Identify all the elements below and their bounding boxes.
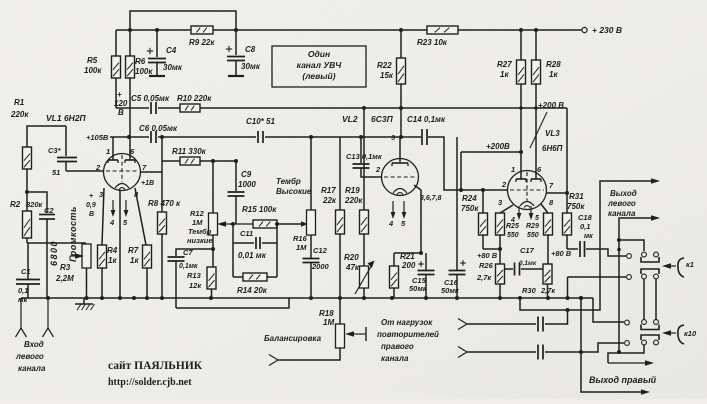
- node C7 tap: [211, 247, 215, 251]
- node V2 branch: [617, 238, 621, 242]
- arrowhead output right bottom: [641, 389, 650, 395]
- heater arrow pin5 VL3: [530, 206, 532, 217]
- wire chain B-C left: [643, 279, 645, 320]
- capacitor C1: [16, 243, 40, 304]
- wire output bus V2: [619, 218, 655, 352]
- ground rail: [21, 297, 593, 299]
- node C13 top: [359, 135, 363, 139]
- wire R15 right: [277, 223, 302, 225]
- switch fixed contacts B: [642, 274, 647, 279]
- junction on ground rail x162: [160, 296, 164, 300]
- wire rail to pole C: [593, 298, 624, 322]
- resistor R25: [496, 213, 519, 249]
- wire R10 to R31 top line: [200, 107, 567, 109]
- node R1-R2-C2: [25, 190, 29, 194]
- junction on ground rail x147: [145, 296, 149, 300]
- junction on ground rail x86: [85, 296, 89, 300]
- resistor R27: [497, 30, 526, 179]
- switch pole contact C: [625, 320, 630, 325]
- capacitor C10: [246, 117, 275, 143]
- resistor R28: [532, 30, 562, 179]
- wire C6 to C10: [158, 136, 256, 138]
- resistor R19: [344, 108, 369, 266]
- node R11 drop: [160, 135, 164, 139]
- capacitor C17: [505, 246, 548, 276]
- wire top bypass loop over R9: [130, 11, 236, 30]
- potentiometer R3 volume: [55, 244, 91, 298]
- pin 6 lead VL1: [129, 137, 131, 160]
- resistor R8: [148, 199, 181, 298]
- node C11 left top: [231, 222, 235, 226]
- node +200 R27: [519, 150, 523, 154]
- node rail-R28: [534, 28, 538, 32]
- node R22 anode line: [399, 106, 403, 110]
- wire contact D to mid arrow: [608, 345, 644, 363]
- wire R16 riser: [310, 137, 312, 210]
- node R12 top: [211, 159, 215, 163]
- node R28 line crossing: [534, 106, 538, 110]
- paper noise overlay: [0, 0, 1, 1]
- resistor R15: [242, 205, 277, 228]
- node V4 line2: [579, 350, 583, 354]
- junction on ground rail x548: [546, 296, 550, 300]
- wire R24 to R25 node: [483, 248, 500, 250]
- selector k1 symbol: [668, 265, 676, 267]
- block label - one UHF channel (left): [272, 46, 366, 87]
- leader line +200V: [530, 112, 547, 148]
- capacitor C14: [407, 115, 446, 145]
- resistor R17: [321, 137, 345, 298]
- wire +120V line with R10: [116, 107, 149, 109]
- cathode lead VL1: [119, 191, 121, 298]
- wire anode VL2: [399, 137, 401, 162]
- switch pole contact B: [627, 275, 632, 280]
- resistor R14: [233, 273, 277, 295]
- node rail-loopL: [128, 28, 132, 32]
- junction on ground rail x340: [338, 296, 342, 300]
- node P1 on V1 line: [566, 308, 570, 312]
- capacitor C2: [27, 192, 59, 298]
- node rail-loopR: [234, 28, 238, 32]
- input line P1 from right channel: [458, 319, 536, 330]
- capacitor C13: [346, 137, 383, 177]
- capacitor C8: [226, 30, 261, 75]
- resistor R13: [187, 267, 216, 298]
- node V2 bottom: [617, 350, 621, 354]
- resistor R22: [377, 30, 406, 137]
- node C17 right: [546, 267, 550, 271]
- node R31 tap: [565, 191, 569, 195]
- wire R18 riser: [339, 298, 341, 324]
- node R19 top: [362, 106, 366, 110]
- wire riser +200V to grid line: [460, 152, 462, 190]
- node C15 top: [419, 251, 423, 255]
- resistor R10: [177, 94, 212, 112]
- wire P1 to switch: [545, 310, 568, 324]
- wire pole B: [568, 276, 627, 278]
- resistor R4: [98, 245, 118, 298]
- resistor R2: [10, 200, 44, 243]
- wire C18 to pole A: [586, 249, 626, 256]
- pin 8 lead VL3: [541, 204, 548, 213]
- potentiometer R12 bass: [187, 161, 218, 245]
- resistor R21: [390, 252, 416, 298]
- wire C11-R14 right leg: [276, 224, 278, 277]
- junction on ground rail x120: [118, 296, 122, 300]
- wire anode line VL1: [110, 136, 129, 138]
- triode VL1: [104, 154, 141, 191]
- switch pole contact D: [625, 341, 630, 346]
- wire C14 to VL3 grid: [428, 137, 507, 190]
- resistor R30: [522, 264, 556, 298]
- triode VL2: [382, 159, 419, 196]
- capacitor C9: [228, 161, 257, 224]
- resistor R9: [189, 26, 215, 47]
- heater arrow pin4 VL3: [518, 206, 520, 217]
- junction on ground rail x364: [362, 296, 366, 300]
- wire output bus V1: [520, 181, 655, 310]
- capacitor P2 coupling: [537, 345, 539, 360]
- terminal +230V: [582, 27, 587, 32]
- wire cathode VL2: [394, 185, 421, 253]
- node R24 top: [481, 188, 485, 192]
- capacitor C6: [139, 124, 178, 143]
- wire R18 bottom out: [278, 348, 340, 360]
- wire V4 right output: [581, 298, 645, 392]
- resistor R29: [526, 213, 553, 264]
- junction on ground rail x520: [518, 296, 522, 300]
- switch fixed contacts A: [642, 252, 647, 257]
- capacitor P1 coupling: [537, 317, 539, 332]
- junction on ground rail x211: [209, 296, 213, 300]
- capacitor C3: [48, 126, 77, 177]
- resistor R26: [476, 261, 505, 298]
- switch pole contact A: [627, 254, 632, 259]
- potentiometer R18 balance: [319, 309, 345, 348]
- wire C10 to anode VL2: [265, 136, 421, 138]
- node rail-R22: [399, 28, 403, 32]
- node R16 riser: [309, 135, 313, 139]
- node C18-V2 crossing: [617, 248, 621, 252]
- potentiometer R16 treble: [293, 210, 316, 258]
- capacitor C18: [567, 213, 593, 257]
- capacitor C11: [233, 229, 277, 260]
- heater arrow pin5 VL2: [403, 201, 405, 216]
- resistor R7: [128, 245, 152, 298]
- node R6 bottom: [127, 135, 131, 139]
- pin 3 lead VL3: [500, 205, 513, 213]
- wiper R18: [351, 333, 366, 335]
- heater arrow pin5 VL1: [125, 200, 127, 214]
- wire VL1 grid2: [66, 170, 104, 172]
- capacitor C16: [441, 137, 466, 298]
- node anode VL2: [399, 135, 403, 139]
- node pole B riser rail: [566, 296, 570, 300]
- wire R8 drop from grid7: [161, 137, 163, 212]
- pin 3 lead VL1: [102, 188, 104, 245]
- capacitor C15: [409, 253, 435, 298]
- junction on ground rail x500: [498, 296, 502, 300]
- wire C7 ground return: [176, 298, 289, 308]
- capacitor C5: [131, 94, 170, 114]
- node V4 top: [579, 296, 583, 300]
- switch fixed contacts C: [642, 320, 647, 325]
- node rail-R27: [519, 28, 523, 32]
- wire pole B riser: [567, 277, 569, 298]
- wire R25 to R26: [499, 249, 501, 264]
- input line P2 from right channel: [458, 347, 536, 358]
- junction on ground rail x581: [579, 296, 583, 300]
- node C9 top: [234, 159, 238, 163]
- arrowhead output 2: [651, 215, 660, 221]
- arrow right output mid: [608, 362, 648, 364]
- wire C11-R14 left leg: [232, 224, 234, 277]
- pin 1 lead VL1: [112, 137, 114, 160]
- capacitor C4: [147, 30, 183, 75]
- junction on ground rail x392: [390, 296, 394, 300]
- resistor R31: [563, 108, 586, 235]
- wire +230V supply rail: [116, 29, 582, 31]
- heater arrow pin4 VL2: [392, 201, 394, 216]
- switch fixed contacts D: [642, 340, 647, 345]
- wire node to R3: [27, 242, 86, 244]
- node +200 grid: [459, 188, 463, 192]
- wire V2 to contact A: [619, 240, 644, 251]
- input terminal fork 2: [47, 298, 49, 328]
- heater arrow pin4 VL1: [112, 200, 114, 214]
- capacitor C12: [303, 246, 330, 298]
- node R25-R26: [498, 247, 502, 251]
- resistor R23: [417, 26, 458, 47]
- arrowhead output left top: [651, 178, 660, 184]
- wire chain B-C right: [655, 279, 657, 320]
- triode VL3: [508, 171, 547, 210]
- capacitor C7: [168, 248, 214, 308]
- ground under C8: [228, 75, 244, 77]
- input terminal fork 1: [20, 298, 22, 328]
- wire C5 to R10: [158, 107, 180, 109]
- terminal fork balance: [269, 355, 278, 361]
- potentiometer R20: [344, 253, 375, 298]
- wire R12 to R13: [212, 235, 214, 267]
- pin 8 lead VL1: [135, 188, 146, 245]
- wire VL3 pin7 out: [546, 192, 567, 194]
- resistor R6: [126, 30, 154, 137]
- junction on ground rail x311: [309, 296, 313, 300]
- wire to C6: [129, 136, 149, 138]
- junction on ground rail x426: [424, 296, 428, 300]
- junction on ground rail x102: [100, 296, 104, 300]
- chassis ground symbol: [75, 298, 95, 310]
- resistor R11: [162, 147, 237, 165]
- resistor R5: [84, 30, 121, 108]
- resistor R24: [461, 190, 488, 249]
- ground under C4: [149, 75, 165, 77]
- wiper arrow R16: [301, 221, 308, 227]
- wiper arrow R12: [223, 223, 253, 225]
- node R27 line crossing: [519, 106, 523, 110]
- junction on ground rail x457: [455, 296, 459, 300]
- node rail-C4: [155, 28, 159, 32]
- wire +200V line: [461, 151, 521, 153]
- wire P2 to pole D: [545, 343, 624, 352]
- junction on ground rail x48: [46, 296, 50, 300]
- junction on ground rail x134: [132, 296, 136, 300]
- wire VL1 grid7: [140, 171, 162, 173]
- node C11 right top: [275, 222, 279, 226]
- selector k10 symbol: [668, 332, 676, 334]
- resistor R1: [10, 98, 66, 211]
